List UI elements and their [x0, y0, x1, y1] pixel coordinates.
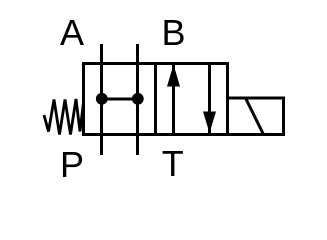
svg-text:P: P [60, 144, 84, 185]
svg-text:T: T [162, 143, 184, 184]
svg-text:A: A [60, 12, 84, 53]
svg-text:B: B [161, 12, 185, 53]
